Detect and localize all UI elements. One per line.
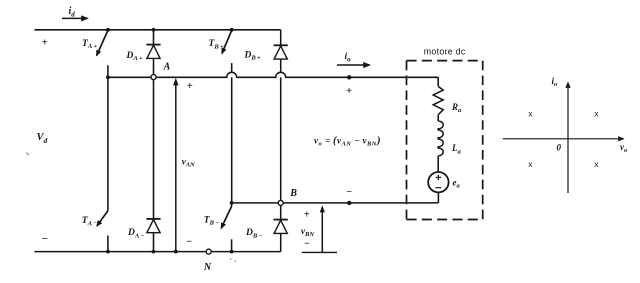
switch T_A+ blade <box>97 30 108 55</box>
diode D_A- bar <box>146 218 160 220</box>
wire motor entry down <box>437 77 439 86</box>
svg-text:+: + <box>187 81 193 92</box>
v_BN reference stub <box>302 251 337 253</box>
svg-text:−: − <box>41 233 48 245</box>
diode D_B- bar <box>274 219 288 221</box>
svg-text:−: − <box>186 236 192 247</box>
svg-text:N: N <box>203 262 212 273</box>
diode D_A- wire top <box>153 80 155 219</box>
source e_a circle <box>428 172 448 192</box>
svg-text:0: 0 <box>557 143 562 153</box>
current arrow i_o <box>337 64 370 66</box>
minus inside e_a <box>436 187 442 189</box>
switch T_A- blade <box>97 211 108 226</box>
svg-text:B: B <box>289 188 297 199</box>
svg-text:vo = (vAN − vBN): vo = (vAN − vBN) <box>314 135 381 147</box>
switch T_A- upper contact wire <box>107 77 109 211</box>
svg-text:La: La <box>451 143 462 155</box>
svg-text:TB +: TB + <box>209 39 224 50</box>
diode D_B- triangle <box>274 220 287 233</box>
stray scan specks near T_B- <box>230 258 232 260</box>
diode D_B+ wire down through hop to node B <box>280 59 282 73</box>
motor dashed box <box>407 61 483 220</box>
svg-text:x: x <box>528 109 533 119</box>
diode D_A+ bar <box>146 44 160 46</box>
junction motor plus terminal <box>347 75 351 79</box>
svg-text:x: x <box>594 109 599 119</box>
junction node A rail / T_A leg <box>106 75 110 79</box>
svg-text:DB −: DB − <box>245 228 263 239</box>
svg-text:TB −: TB − <box>204 216 219 227</box>
inductor L_a <box>438 121 443 156</box>
diode D_A- triangle <box>147 220 160 233</box>
diode D_A- wire bottom <box>153 233 155 252</box>
svg-text:motore dc: motore dc <box>424 46 466 56</box>
voltage arrow v_AN <box>175 85 177 252</box>
switch T_B- blade <box>221 206 231 228</box>
quadrant plot vertical axis i_o <box>567 83 569 194</box>
svg-text:Vd: Vd <box>37 132 48 145</box>
wire: node B rail <box>232 202 439 204</box>
node A terminal circle <box>151 75 156 80</box>
wire between L_a and e_a <box>437 156 439 172</box>
junction on top rail at T_B+ <box>230 28 234 32</box>
voltage arrow v_BN <box>321 212 323 253</box>
node B terminal circle <box>278 200 283 205</box>
svg-text:x: x <box>528 159 533 169</box>
stray scan speck below V_d <box>27 153 29 156</box>
switch T_B+ blade <box>222 30 232 53</box>
svg-text:A: A <box>163 61 171 72</box>
node N terminal circle <box>206 249 211 254</box>
junction node B rail at T_B <box>230 201 234 205</box>
svg-text:io: io <box>345 52 352 64</box>
junction bottom rail at v_AN <box>174 250 178 254</box>
svg-text:ea: ea <box>453 177 461 189</box>
diode D_B+ triangle <box>274 46 287 59</box>
junction bottom rail at D_A- <box>152 250 156 254</box>
wire: top positive rail <box>35 29 281 31</box>
wire between R_a and L_a <box>437 115 439 121</box>
quadrant plot horizontal axis v_o <box>503 138 624 140</box>
current arrow i_d <box>62 17 88 19</box>
wire: node A rail with hop-overs <box>108 72 438 77</box>
svg-text:DB +: DB + <box>244 51 262 62</box>
diode D_B+ wire from rail corner <box>280 30 282 46</box>
svg-text:TA +: TA + <box>82 39 97 50</box>
diode D_A+ triangle <box>147 45 160 58</box>
junction on top rail at T_A+ <box>106 28 110 32</box>
svg-text:+: + <box>346 86 352 97</box>
wire: bottom negative rail <box>34 251 280 253</box>
switch T_B- stub <box>231 203 233 206</box>
diode D_B- wire from node B <box>280 205 282 219</box>
svg-text:DA +: DA + <box>126 51 144 62</box>
svg-text:−: − <box>304 239 310 250</box>
junction bottom rail at T_B- <box>230 250 234 254</box>
svg-text:TA −: TA − <box>82 216 97 227</box>
svg-text:vBN: vBN <box>301 226 314 238</box>
switch T_B+ lower contact through hop to node B <box>231 63 233 73</box>
diode D_B+ bar <box>274 44 288 46</box>
svg-text:io: io <box>552 76 559 88</box>
diode D_A+ wire top <box>153 30 155 45</box>
svg-text:DA −: DA − <box>127 228 145 239</box>
resistor R_a <box>433 86 443 114</box>
switch T_A- lower contact <box>107 236 109 252</box>
junction on top rail at D_A+ <box>152 28 156 32</box>
switch T_A+ lower contact <box>107 65 109 77</box>
svg-text:Ra: Ra <box>451 102 462 114</box>
svg-text:−: − <box>346 187 352 198</box>
svg-text:vo: vo <box>620 142 628 154</box>
svg-text:id: id <box>69 6 76 19</box>
svg-text:x: x <box>594 159 599 169</box>
svg-text:+: + <box>304 210 310 221</box>
switch T_B- lower contact <box>231 239 233 251</box>
diode D_A+ wire bottom <box>153 58 155 74</box>
wire e_a to node B rail <box>437 192 439 203</box>
junction bottom rail at T_A- <box>106 250 110 254</box>
svg-text:vAN: vAN <box>182 156 195 168</box>
diode D_B- wire bottom <box>280 233 282 251</box>
junction motor minus terminal <box>347 201 351 205</box>
svg-text:+: + <box>41 36 47 48</box>
plus inside e_a <box>436 176 441 178</box>
